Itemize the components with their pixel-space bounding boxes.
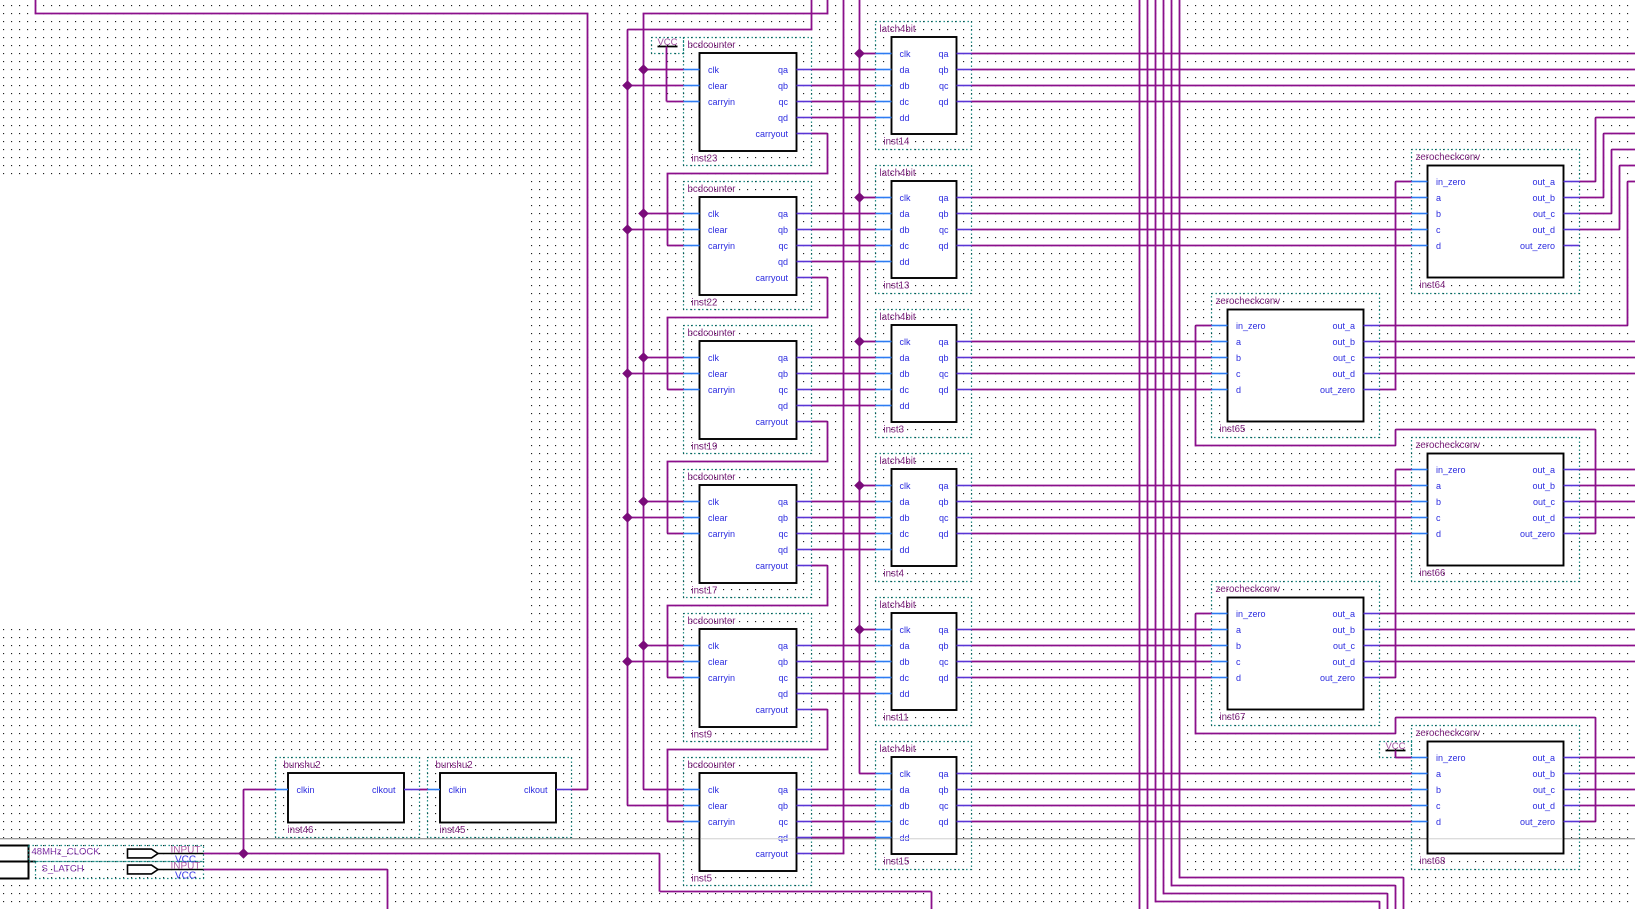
junction latch clk inst4 (855, 481, 864, 490)
wire qc(inst13) (972, 229, 1412, 231)
svg-text:out_a: out_a (1532, 177, 1555, 187)
svg-text:inst68: inst68 (1420, 856, 1446, 867)
wire qa(inst14) (972, 53, 1635, 55)
svg-text:out_zero: out_zero (1520, 241, 1555, 251)
svg-text:out_c: out_c (1533, 785, 1556, 795)
svg-text:da: da (900, 65, 910, 75)
wire qb(inst14) (972, 69, 1635, 71)
junction clk inst23 (639, 65, 648, 74)
svg-text:c: c (1436, 513, 1441, 523)
bcdcounter inst9 (684, 614, 812, 742)
svg-text:c: c (1236, 369, 1241, 379)
empty sheet area (no grid) top-left (0, 177, 529, 625)
svg-text:bcdcounter: bcdcounter (688, 40, 737, 51)
svg-text:qa: qa (938, 769, 948, 779)
svg-text:latch4bit: latch4bit (880, 168, 916, 179)
wire qb(inst9) to latch db (812, 661, 876, 663)
wire clk to inst15 (860, 773, 876, 775)
svg-text:qa: qa (938, 481, 948, 491)
svg-text:qa: qa (938, 625, 948, 635)
wire clk to inst9 (644, 645, 684, 647)
svg-text:in_zero: in_zero (1436, 753, 1466, 763)
svg-text:zerocheckconv: zerocheckconv (1216, 584, 1281, 595)
wire qd(inst19) to latch dd (812, 405, 876, 407)
wire clk to inst5 (644, 789, 684, 791)
svg-text:bcdcounter: bcdcounter (688, 472, 737, 483)
svg-text:db: db (900, 513, 910, 523)
svg-text:a: a (1436, 769, 1441, 779)
svg-text:qc: qc (939, 81, 949, 91)
wire qb(inst4) (972, 501, 1412, 503)
svg-text:inst4: inst4 (884, 569, 905, 580)
svg-text:dc: dc (900, 529, 910, 539)
svg-text:clear: clear (708, 369, 728, 379)
svg-text:inst22: inst22 (692, 298, 718, 309)
junction clear inst23 (623, 81, 632, 90)
VCC symbol (inst23 carryin) (652, 38, 684, 54)
svg-text:dd: dd (900, 113, 910, 123)
svg-text:da: da (900, 641, 910, 651)
svg-text:S_LATCH: S_LATCH (42, 864, 84, 875)
zerocheckconv inst66 (1412, 438, 1580, 582)
wire clk to inst22 (644, 213, 684, 215)
bcdcounter inst23 (684, 38, 812, 166)
svg-text:out_d: out_d (1332, 657, 1355, 667)
wire clk to inst17 (644, 501, 684, 503)
wires out_a..out_d (inst68) to right edge (1580, 757, 1635, 759)
input pin 48MHz_CLOCK (0, 846, 29, 862)
svg-text:inst46: inst46 (288, 825, 314, 836)
latch4bit inst15 (876, 742, 972, 870)
svg-text:VCC: VCC (175, 871, 196, 882)
svg-text:in_zero: in_zero (1436, 465, 1466, 475)
svg-text:clk: clk (708, 641, 719, 651)
junction latch clk inst13 (855, 193, 864, 202)
sheet border through blocks (faint) (700, 838, 795, 840)
wire qd(inst4) (972, 533, 1412, 535)
bunshu2 inst45 (428, 758, 572, 838)
svg-text:qa: qa (778, 353, 788, 363)
svg-text:qb: qb (778, 369, 788, 379)
wire qc(inst19) to latch dc (812, 389, 876, 391)
svg-text:inst23: inst23 (692, 154, 718, 165)
svg-text:qd: qd (778, 545, 788, 555)
svg-text:inst3: inst3 (884, 425, 904, 436)
wire qd(inst9) to latch dd (812, 693, 876, 695)
svg-text:db: db (900, 369, 910, 379)
wire qd(inst17) to latch dd (812, 549, 876, 551)
svg-text:dc: dc (900, 673, 910, 683)
svg-text:qd: qd (938, 817, 948, 827)
svg-text:zerocheckconv: zerocheckconv (1416, 728, 1481, 739)
svg-text:bunshu2: bunshu2 (284, 760, 321, 771)
wire carry chain inst17 to inst9 (812, 565, 828, 567)
svg-text:dc: dc (900, 817, 910, 827)
junction 48MHz_CLOCK (239, 849, 248, 858)
svg-text:qd: qd (778, 257, 788, 267)
svg-text:latch4bit: latch4bit (880, 312, 916, 323)
svg-text:carryout: carryout (755, 417, 788, 427)
latch4bit inst11 (876, 598, 972, 726)
wire: carryout(inst5) riser (843, 0, 845, 854)
svg-text:qb: qb (778, 657, 788, 667)
svg-text:out_a: out_a (1332, 321, 1355, 331)
svg-text:bcdcounter: bcdcounter (688, 328, 737, 339)
svg-text:inst5: inst5 (692, 874, 712, 885)
svg-text:qa: qa (778, 209, 788, 219)
svg-text:out_d: out_d (1532, 225, 1555, 235)
svg-text:latch4bit: latch4bit (880, 24, 916, 35)
wire: latch clock distribution net (859, 0, 861, 774)
svg-text:a: a (1436, 193, 1441, 203)
svg-text:out_zero: out_zero (1320, 673, 1355, 683)
svg-text:clk: clk (708, 209, 719, 219)
bcdcounter inst17 (684, 470, 812, 598)
svg-text:out_c: out_c (1333, 353, 1356, 363)
zerocheckconv inst68 (1412, 726, 1580, 870)
wire qa(inst9) to latch da (812, 645, 876, 647)
wires out_a..out_d (inst64) to right edge (1580, 181, 1596, 183)
latch4bit inst13 (876, 166, 972, 294)
svg-text:b: b (1436, 785, 1441, 795)
svg-text:clk: clk (708, 497, 719, 507)
svg-text:da: da (900, 353, 910, 363)
wire clk to inst13 (860, 197, 876, 199)
svg-text:d: d (1436, 529, 1441, 539)
svg-text:latch4bit: latch4bit (880, 456, 916, 467)
svg-text:in_zero: in_zero (1436, 177, 1466, 187)
svg-text:qb: qb (778, 801, 788, 811)
svg-text:latch4bit: latch4bit (880, 600, 916, 611)
wire clk to inst11 (860, 629, 876, 631)
svg-text:out_b: out_b (1332, 625, 1355, 635)
wire qb(inst19) to latch db (812, 373, 876, 375)
wire qd(inst15) (972, 821, 1412, 823)
junction clk inst19 (639, 353, 648, 362)
svg-text:out_a: out_a (1532, 753, 1555, 763)
svg-text:db: db (900, 225, 910, 235)
svg-text:qc: qc (939, 801, 949, 811)
svg-text:qa: qa (938, 337, 948, 347)
svg-text:clk: clk (708, 353, 719, 363)
svg-text:dc: dc (900, 97, 910, 107)
svg-text:out_c: out_c (1533, 209, 1556, 219)
wire clk to inst3 (860, 341, 876, 343)
svg-text:qc: qc (778, 673, 788, 683)
svg-text:da: da (900, 785, 910, 795)
wire qc(inst4) (972, 517, 1412, 519)
svg-text:qd: qd (938, 529, 948, 539)
svg-text:db: db (900, 801, 910, 811)
svg-text:qa: qa (778, 641, 788, 651)
svg-text:carryin: carryin (708, 97, 735, 107)
wire: clk distribution net (643, 14, 645, 790)
junction clk inst22 (639, 209, 648, 218)
svg-text:inst17: inst17 (692, 586, 718, 597)
svg-text:qd: qd (778, 689, 788, 699)
junction latch clk inst3 (855, 337, 864, 346)
svg-text:qa: qa (938, 193, 948, 203)
wires out_a..out_d (inst67) to right edge (1380, 613, 1635, 615)
wire qd(inst11) (972, 677, 1212, 679)
wire S_LATCH net (204, 869, 388, 871)
svg-text:da: da (900, 497, 910, 507)
svg-text:b: b (1236, 353, 1241, 363)
svg-text:carryout: carryout (755, 129, 788, 139)
svg-text:clk: clk (900, 193, 911, 203)
junction latch clk inst14 (855, 49, 864, 58)
svg-text:clkin: clkin (297, 785, 315, 795)
wire qa(inst4) (972, 485, 1412, 487)
wire qc(inst22) to latch dc (812, 245, 876, 247)
svg-text:carryout: carryout (755, 273, 788, 283)
svg-text:out_d: out_d (1532, 513, 1555, 523)
svg-text:clk: clk (900, 481, 911, 491)
junction clear inst9 (623, 657, 632, 666)
wire qb(inst15) (972, 789, 1412, 791)
svg-text:clk: clk (900, 337, 911, 347)
svg-text:b: b (1436, 209, 1441, 219)
svg-text:dd: dd (900, 545, 910, 555)
wire out_zero(inst67) to in_zero(inst66) (1396, 469, 1412, 471)
svg-text:out_a: out_a (1332, 609, 1355, 619)
svg-text:qd: qd (778, 401, 788, 411)
svg-text:b: b (1436, 497, 1441, 507)
svg-text:inst9: inst9 (692, 730, 712, 741)
svg-text:d: d (1236, 673, 1241, 683)
wire: clkout(inst45) net to top-left (35, 0, 37, 14)
svg-text:out_d: out_d (1532, 801, 1555, 811)
svg-text:in_zero: in_zero (1236, 321, 1266, 331)
svg-text:clk: clk (900, 49, 911, 59)
svg-text:bcdcounter: bcdcounter (688, 760, 737, 771)
svg-text:inst65: inst65 (1220, 424, 1246, 435)
svg-text:dc: dc (900, 241, 910, 251)
svg-text:a: a (1236, 625, 1241, 635)
wire out_zero(inst65) to in_zero(inst64) (1380, 389, 1397, 391)
wire qd(inst3) (972, 389, 1212, 391)
wire qa(inst11) (972, 629, 1212, 631)
svg-text:qc: qc (778, 97, 788, 107)
svg-text:db: db (900, 81, 910, 91)
svg-text:zerocheckconv: zerocheckconv (1416, 152, 1481, 163)
wire qc(inst15) (972, 805, 1412, 807)
wire qc(inst17) to latch dc (812, 533, 876, 535)
svg-text:out_d: out_d (1332, 369, 1355, 379)
wire carry chain inst9 to inst5 (812, 709, 828, 711)
svg-text:c: c (1236, 657, 1241, 667)
latch4bit inst4 (876, 454, 972, 582)
svg-text:out_b: out_b (1532, 193, 1555, 203)
svg-text:d: d (1436, 817, 1441, 827)
svg-text:qc: qc (939, 657, 949, 667)
wire qb(inst3) (972, 357, 1212, 359)
svg-text:inst19: inst19 (692, 442, 718, 453)
svg-text:carryin: carryin (708, 817, 735, 827)
svg-text:clk: clk (900, 625, 911, 635)
wire clear to inst23 (628, 85, 684, 87)
svg-text:out_c: out_c (1333, 641, 1356, 651)
wire clear to inst22 (628, 229, 684, 231)
svg-text:out_b: out_b (1532, 769, 1555, 779)
svg-text:clkin: clkin (449, 785, 467, 795)
sheet page border (gray) (0, 838, 1635, 840)
svg-text:out_c: out_c (1533, 497, 1556, 507)
svg-text:carryin: carryin (708, 529, 735, 539)
wire qc(inst11) (972, 661, 1212, 663)
svg-text:out_zero: out_zero (1320, 385, 1355, 395)
svg-text:inst11: inst11 (884, 713, 909, 724)
junction clear inst19 (623, 369, 632, 378)
svg-text:qb: qb (778, 225, 788, 235)
wire: clear distribution net (811, 0, 813, 30)
wire clk to inst4 (860, 485, 876, 487)
svg-text:qd: qd (938, 241, 948, 251)
svg-text:inst14: inst14 (884, 137, 910, 148)
wire clk to inst23 (644, 69, 684, 71)
wire clk to inst19 (644, 357, 684, 359)
wire out_zero(inst66) to in_zero(inst65) (1196, 325, 1212, 327)
svg-text:inst15: inst15 (884, 857, 910, 868)
wire clk to inst14 (860, 53, 876, 55)
svg-text:dc: dc (900, 385, 910, 395)
wire qc(inst23) to latch dc (812, 101, 876, 103)
svg-text:qb: qb (938, 353, 948, 363)
svg-text:zerocheckconv: zerocheckconv (1216, 296, 1281, 307)
svg-text:inst64: inst64 (1420, 280, 1446, 291)
svg-text:clkout: clkout (524, 785, 548, 795)
svg-text:db: db (900, 657, 910, 667)
zerocheckconv inst67 (1212, 582, 1380, 726)
svg-text:qc: qc (939, 225, 949, 235)
svg-text:bcdcounter: bcdcounter (688, 616, 737, 627)
junction latch clk inst11 (855, 625, 864, 634)
svg-text:qc: qc (939, 513, 949, 523)
svg-text:bcdcounter: bcdcounter (688, 184, 737, 195)
svg-text:qc: qc (778, 529, 788, 539)
wire clear to inst9 (628, 661, 684, 663)
svg-text:inst13: inst13 (884, 281, 910, 292)
svg-text:d: d (1236, 385, 1241, 395)
svg-text:qb: qb (778, 81, 788, 91)
svg-text:qb: qb (938, 209, 948, 219)
svg-text:qb: qb (938, 785, 948, 795)
svg-text:c: c (1436, 801, 1441, 811)
wire qb(inst17) to latch db (812, 517, 876, 519)
svg-text:dd: dd (900, 689, 910, 699)
svg-text:out_zero: out_zero (1520, 817, 1555, 827)
wire qd(inst14) (972, 101, 1635, 103)
svg-text:inst45: inst45 (440, 825, 466, 836)
wire qa(inst15) (972, 773, 1412, 775)
bcdcounter inst5 (684, 758, 812, 886)
zerocheckconv inst65 (1212, 294, 1380, 438)
wire qa(inst13) (972, 197, 1412, 199)
wires out_a..out_d (inst66) to right edge (1580, 469, 1635, 471)
svg-text:qb: qb (938, 65, 948, 75)
svg-text:qb: qb (938, 497, 948, 507)
wire qc(inst9) to latch dc (812, 677, 876, 679)
svg-text:d: d (1436, 241, 1441, 251)
svg-text:clk: clk (900, 769, 911, 779)
svg-text:a: a (1436, 481, 1441, 491)
vertical bus wires (1139, 0, 1141, 909)
wire qa(inst22) to latch da (812, 213, 876, 215)
svg-text:in_zero: in_zero (1236, 609, 1266, 619)
svg-text:qd: qd (938, 97, 948, 107)
svg-text:a: a (1236, 337, 1241, 347)
wire qd(inst22) to latch dd (812, 261, 876, 263)
wire 48MHz_CLOCK net (204, 853, 660, 855)
svg-text:carryin: carryin (708, 385, 735, 395)
svg-text:carryout: carryout (755, 561, 788, 571)
svg-text:latch4bit: latch4bit (880, 744, 916, 755)
wire qc(inst3) (972, 373, 1212, 375)
svg-text:dd: dd (900, 257, 910, 267)
svg-text:qc: qc (778, 241, 788, 251)
svg-text:qa: qa (938, 49, 948, 59)
bunshu2 inst46 (276, 758, 420, 838)
wires out_a..out_d (inst65) to right edge (1380, 325, 1628, 327)
svg-text:qa: qa (778, 785, 788, 795)
junction clk inst17 (639, 497, 648, 506)
wire qa(inst17) to latch da (812, 501, 876, 503)
wire qa(inst23) to latch da (812, 69, 876, 71)
svg-text:qd: qd (778, 113, 788, 123)
svg-text:qa: qa (778, 497, 788, 507)
svg-text:carryout: carryout (755, 849, 788, 859)
wire qc(inst5) to latch dc (812, 821, 876, 823)
wire carry chain inst19 to inst17 (812, 421, 828, 423)
svg-text:c: c (1436, 225, 1441, 235)
wire carry chain inst23 to inst22 (812, 133, 828, 135)
svg-text:qa: qa (778, 65, 788, 75)
svg-text:out_b: out_b (1332, 337, 1355, 347)
wire carry chain inst22 to inst19 (812, 277, 828, 279)
svg-text:inst66: inst66 (1420, 568, 1446, 579)
wire clear to inst19 (628, 373, 684, 375)
wire clear to inst5 (628, 805, 684, 807)
svg-text:qc: qc (778, 385, 788, 395)
svg-text:qc: qc (939, 369, 949, 379)
svg-text:qd: qd (938, 385, 948, 395)
svg-text:clear: clear (708, 801, 728, 811)
svg-text:bunshu2: bunshu2 (436, 760, 473, 771)
svg-text:b: b (1236, 641, 1241, 651)
svg-text:out_zero: out_zero (1520, 529, 1555, 539)
svg-text:qb: qb (938, 641, 948, 651)
wire qa(inst3) (972, 341, 1212, 343)
wire qb(inst23) to latch db (812, 85, 876, 87)
svg-text:48MHz_CLOCK: 48MHz_CLOCK (32, 847, 101, 858)
svg-text:clear: clear (708, 513, 728, 523)
VCC symbol (inst68 in_zero) (1380, 742, 1412, 758)
svg-text:qd: qd (938, 673, 948, 683)
svg-text:inst67: inst67 (1220, 712, 1246, 723)
wire qd(inst23) to latch dd (812, 117, 876, 119)
wire qb(inst13) (972, 213, 1412, 215)
svg-text:clkout: clkout (372, 785, 396, 795)
svg-text:carryout: carryout (755, 705, 788, 715)
svg-text:carryin: carryin (708, 673, 735, 683)
junction clear inst17 (623, 513, 632, 522)
wire qb(inst11) (972, 645, 1212, 647)
wire qa(inst5) to latch da (812, 789, 876, 791)
svg-text:qc: qc (778, 817, 788, 827)
svg-text:zerocheckconv: zerocheckconv (1416, 440, 1481, 451)
svg-text:dd: dd (900, 401, 910, 411)
wire qd(inst5) to latch dd (812, 837, 876, 839)
